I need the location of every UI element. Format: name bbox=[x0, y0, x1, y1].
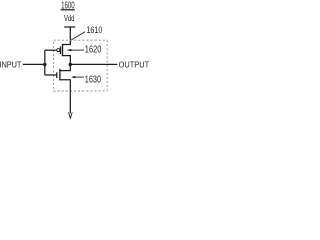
leader line 1610 bbox=[71, 32, 85, 40]
PMOS gate wire bbox=[45, 49, 57, 51]
ground arrow bbox=[69, 112, 73, 118]
output junction dot bbox=[69, 63, 72, 66]
svg-text:INPUT: INPUT bbox=[0, 59, 22, 69]
output wire bbox=[70, 63, 117, 65]
figure number 1600 bbox=[61, 1, 75, 12]
svg-text:OUTPUT: OUTPUT bbox=[119, 59, 149, 69]
NMOS transistor 1630 bbox=[57, 69, 71, 81]
label 1620 with arrow bbox=[66, 45, 101, 56]
PMOS transistor 1620 bbox=[57, 44, 70, 56]
NMOS gate wire bbox=[45, 74, 57, 76]
Vdd supply bar bbox=[64, 26, 75, 28]
label 1630 with arrow bbox=[71, 75, 102, 86]
wire NMOS source to ground bbox=[69, 80, 71, 113]
svg-text:1630: 1630 bbox=[85, 75, 102, 86]
input wire bbox=[23, 63, 45, 65]
svg-text:1620: 1620 bbox=[85, 45, 102, 56]
input stem wire bbox=[44, 50, 46, 75]
wire Vdd to PMOS source bbox=[69, 27, 71, 45]
dashed box (inverter 1610) bbox=[54, 40, 108, 91]
svg-text:1610: 1610 bbox=[86, 25, 102, 36]
wire PMOS drain to output node bbox=[69, 56, 71, 71]
svg-text:Vdd: Vdd bbox=[64, 13, 75, 23]
input junction dot bbox=[43, 63, 46, 66]
